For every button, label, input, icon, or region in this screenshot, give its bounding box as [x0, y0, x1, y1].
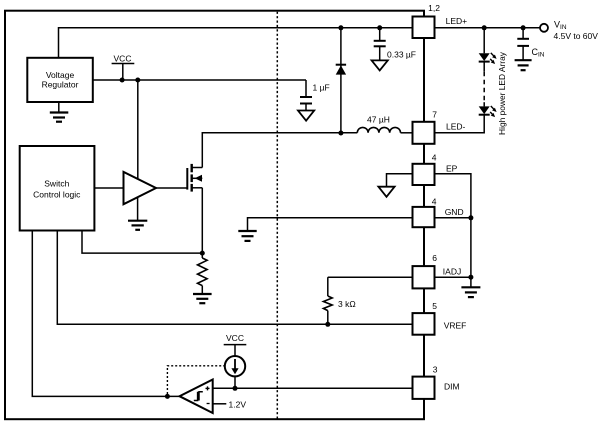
svg-text:Control logic: Control logic: [33, 189, 81, 199]
wire GND pin to internal ground: [248, 218, 413, 231]
node CIN tap dot: [521, 25, 526, 30]
node GND right dot: [468, 215, 473, 220]
wire comparator output leg: [32, 231, 181, 397]
svg-text:47 µH: 47 µH: [367, 114, 390, 124]
wire VREG top to LED+ rail: [59, 28, 413, 59]
node VCC junction dot 1: [120, 78, 125, 83]
svg-text:IADJ: IADJ: [443, 267, 461, 277]
capacitor CIN: [517, 28, 545, 60]
voltage regulator U1: [27, 58, 93, 102]
wire EP pin to arrow ground: [387, 174, 413, 187]
svg-text:4.5V to 60V: 4.5V to 60V: [554, 31, 599, 41]
wire comparator minus input: [213, 399, 246, 409]
svg-text:VCC: VCC: [226, 333, 244, 343]
VCC rail wire: [93, 79, 306, 81]
svg-text:6: 6: [432, 253, 437, 263]
ground below CIN: [515, 60, 532, 70]
svg-text:LED-: LED-: [446, 121, 466, 131]
pin box 5 VREF: [413, 301, 467, 335]
wire GND pin right: [435, 217, 471, 219]
svg-text:DIM: DIM: [444, 381, 460, 391]
IC boundary outer box: [5, 11, 424, 420]
LED array dashed wire: [483, 62, 485, 107]
switch control logic block: [20, 146, 95, 231]
svg-text:VREF: VREF: [444, 320, 467, 330]
node VREF junction dot: [325, 322, 330, 327]
ground below sense resistor: [193, 294, 212, 303]
internal ground symbol: [238, 231, 256, 241]
label High power LED Array: [497, 51, 507, 135]
svg-text:1 µF: 1 µF: [313, 82, 330, 92]
wire IADJ pin left: [328, 276, 413, 278]
capacitor 0.33uF: [374, 28, 416, 61]
svg-text:VIN: VIN: [554, 20, 567, 32]
svg-text:LED+: LED+: [446, 16, 468, 26]
wire IADJ pin right: [435, 276, 471, 278]
svg-text:4: 4: [432, 153, 437, 163]
ground below IADJ wire: [461, 287, 480, 297]
svg-text:5: 5: [432, 301, 437, 311]
wire gate driver output to MOSFET gate: [156, 187, 187, 189]
comparator U2: [180, 380, 213, 414]
wire EP pin right: [435, 174, 471, 218]
transistor Q1 NMOS: [187, 164, 202, 192]
gate driver supply wire: [137, 80, 139, 182]
node VCC junction dot 2: [135, 78, 140, 83]
wire comparator plus input to DIM: [213, 387, 413, 389]
gate driver buffer: [124, 172, 157, 204]
svg-text:GND: GND: [445, 207, 464, 217]
svg-text:1,2: 1,2: [428, 3, 440, 13]
node comparator output dot: [165, 394, 170, 399]
VCC supply at current source: [224, 333, 247, 356]
VCC supply symbol: [112, 54, 135, 81]
svg-text:VCC: VCC: [114, 54, 132, 64]
inductor L1 47uH: [357, 114, 412, 133]
wire SCL to gate driver: [95, 187, 124, 189]
svg-text:EP: EP: [446, 163, 458, 173]
pin box 3 DIM: [413, 365, 460, 399]
gate driver ground wire: [137, 194, 139, 221]
diode D1: [336, 28, 346, 133]
wire VREF leg: [57, 231, 412, 325]
ground arrow below 1uF: [298, 111, 314, 121]
pin box 6 IADJ: [413, 253, 462, 289]
resistor R sense: [198, 253, 208, 294]
pin box 1,2 LED+: [413, 3, 468, 38]
node diode bottom dot: [338, 131, 343, 136]
LED D3: [479, 106, 497, 117]
LED array top wire: [483, 28, 485, 54]
ground arrow at EP: [378, 187, 394, 197]
capacitor 1uF stub wire: [305, 80, 307, 97]
resistor R1 3k: [323, 277, 355, 324]
svg-text:3: 3: [433, 365, 438, 375]
node LED array tap dot: [482, 25, 487, 30]
svg-text:CIN: CIN: [532, 47, 545, 59]
svg-text:4: 4: [432, 197, 437, 207]
current source I1: [225, 356, 245, 388]
svg-text:Regulator: Regulator: [42, 79, 79, 89]
node IADJ right dot: [468, 275, 473, 280]
svg-text:7: 7: [432, 110, 437, 120]
node DIM wire dot: [233, 386, 238, 391]
LED D2: [479, 53, 497, 64]
terminal VIN: [540, 20, 598, 41]
wire LED array bottom to LED- pin: [435, 115, 485, 133]
ground arrow below 0.33uF: [372, 60, 388, 70]
capacitor 1uF: [300, 82, 330, 110]
svg-text:High power LED Array: High power LED Array: [497, 51, 507, 135]
dashed internal boundary line: [276, 12, 278, 420]
ground below gate driver: [128, 221, 147, 230]
svg-text:3 kΩ: 3 kΩ: [338, 299, 356, 309]
pin box 4 EP: [413, 153, 458, 185]
wire LED+ rail to VIN: [435, 27, 541, 29]
svg-text:1.2V: 1.2V: [229, 399, 247, 409]
svg-text:Switch: Switch: [44, 178, 69, 188]
node diode top dot: [338, 25, 343, 30]
ground below voltage regulator: [50, 102, 69, 122]
wire MOSFET drain to switch node: [202, 133, 357, 168]
dotted control line to current source: [167, 366, 224, 394]
pin box 4 GND: [413, 197, 464, 228]
wire right vertical GND to IADJ: [470, 218, 472, 287]
pin box 7 LED-: [413, 110, 466, 144]
node 0.33uF dot: [377, 25, 382, 30]
svg-text:0.33 µF: 0.33 µF: [387, 49, 416, 59]
wire MOSFET source down: [201, 188, 203, 253]
node sense junction dot: [200, 251, 205, 256]
wire SCL sense leg: [82, 231, 202, 254]
